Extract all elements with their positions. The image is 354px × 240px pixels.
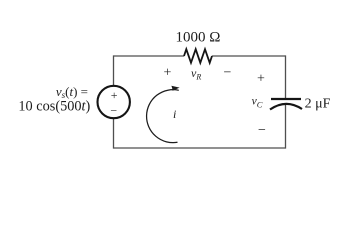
wire left lower segment	[113, 119, 115, 149]
svg-text:−: −	[110, 103, 117, 117]
svg-text:1000 Ω: 1000 Ω	[175, 30, 220, 46]
wire left upper segment	[113, 55, 115, 85]
svg-text:i: i	[173, 107, 176, 121]
svg-text:−: −	[258, 123, 266, 138]
resistor R zigzag 1000 ohm	[184, 49, 212, 63]
svg-text:+: +	[111, 88, 118, 102]
wire bottom segment	[114, 147, 286, 149]
svg-text:2 μF: 2 μF	[305, 96, 331, 111]
mesh current arrowhead	[171, 86, 179, 91]
svg-text:+: +	[257, 72, 265, 87]
wire right lower segment	[285, 105, 287, 149]
capacitor C top plate	[271, 98, 301, 100]
mesh current arc i	[147, 90, 179, 143]
svg-text:+: +	[164, 66, 172, 81]
capacitor C bottom curved plate	[270, 104, 302, 110]
wire top-left segment	[114, 55, 185, 57]
svg-text:−: −	[224, 66, 232, 81]
wire right upper segment	[285, 55, 287, 98]
svg-text:10 cos(500t): 10 cos(500t)	[18, 98, 90, 114]
voltage source Vs circle	[98, 86, 130, 118]
wire top-right segment	[212, 55, 286, 57]
